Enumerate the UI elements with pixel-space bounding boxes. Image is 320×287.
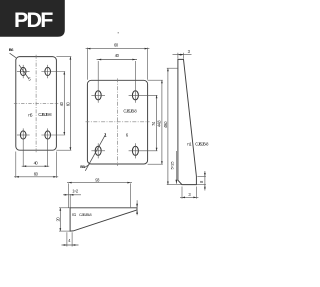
gusset top dim	[173, 54, 192, 56]
gusset right small dim	[204, 171, 206, 191]
hole H3 crosshair + extension down	[17, 134, 30, 136]
leader slash on hole H1	[19, 65, 29, 79]
extension lines bottom outer	[15, 152, 17, 178]
gusset bottom edge extension right	[196, 184, 206, 186]
extension lines top outer P2	[86, 48, 88, 80]
svg-text:5=1:5: 5=1:5	[170, 161, 175, 170]
svg-text:CJI5JB-8: CJI5JB-8	[79, 212, 92, 217]
wedge chamfer dim	[63, 194, 81, 196]
label B6 leader	[10, 53, 16, 58]
plate P2 vertical centerline	[117, 78, 119, 166]
wedge top dim extensions	[67, 183, 69, 207]
dim top outer line P2	[86, 48, 150, 50]
hole H1 top-left	[20, 67, 26, 75]
gusset bottom dim	[180, 196, 198, 198]
plate P1 vertical centerline	[35, 55, 37, 152]
dim right inner P2	[156, 95, 158, 151]
leader on hole H7	[85, 134, 105, 171]
PDF badge	[0, 0, 65, 37]
dim right inner line	[63, 72, 65, 136]
extension top right P2	[148, 79, 163, 81]
gusset bottom edge extension left	[167, 184, 182, 186]
wedge left height dim	[59, 208, 61, 231]
svg-text:CJI5JB-8: CJI5JB-8	[195, 141, 209, 146]
plate P2 outline	[87, 80, 147, 164]
hole H2 top-right	[45, 67, 51, 75]
plate P1 bottom edge extension to outer dim	[56, 149, 71, 151]
hole H2 crosshair + extension to dim	[41, 71, 65, 73]
gusset right dim extension	[197, 175, 206, 177]
plate P1 horizontal centerline	[14, 102, 58, 104]
dim bottom outer line	[14, 176, 58, 178]
dim right outer P2	[161, 80, 163, 164]
dim right outer line	[69, 57, 71, 151]
wedge W1 outline	[70, 208, 137, 231]
stray mark	[118, 32, 119, 33]
hole H4 bottom-right	[45, 131, 51, 139]
wedge tip dim	[136, 200, 138, 215]
hole H6 crosshair + extensions	[129, 94, 158, 96]
hole H7 crosshair	[91, 150, 105, 152]
gusset left height dim	[167, 68, 169, 184]
gusset chamfer dim mark	[175, 151, 177, 184]
extension bottom right P2	[148, 163, 163, 165]
hole H5 crosshair + extension up	[91, 94, 105, 96]
dim bottom inner line	[22, 165, 50, 167]
hole H7 lower-left	[95, 146, 101, 155]
hole H8 lower-right	[132, 146, 138, 155]
svg-text:CJI5JB-8: CJI5JB-8	[123, 108, 137, 113]
hole H4 crosshair + extensions	[41, 134, 65, 136]
hole H8 crosshair + extension right	[129, 150, 158, 152]
wedge top dim	[67, 182, 132, 184]
hole H1 crosshair	[17, 71, 30, 73]
label B0 leader	[84, 164, 89, 167]
svg-text:CJI5JB-8: CJI5JB-8	[38, 112, 52, 117]
plate P2 horizontal centerline	[86, 121, 150, 123]
gusset G1 outline	[178, 59, 197, 184]
plate P1 outline	[16, 57, 57, 151]
dim top inner line P2	[97, 59, 137, 61]
hole H5 upper-left	[95, 91, 101, 100]
wedge bottom dim	[62, 244, 79, 246]
svg-text:PDF: PDF	[14, 8, 53, 32]
hole H3 bottom-left	[20, 131, 26, 139]
plate P1 top edge extension to outer dim	[56, 56, 71, 58]
gusset top-left extension	[167, 67, 178, 69]
hole H6 upper-right	[132, 91, 138, 100]
